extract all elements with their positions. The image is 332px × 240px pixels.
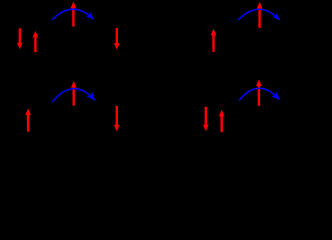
level line: top-right quadrant, left site (199, 53, 228, 55)
level line: bottom-right quadrant, left site (198, 132, 230, 134)
spin-down arrow, bottom-right pair (203, 107, 209, 131)
spin-up arrow, top-left pair (33, 31, 39, 52)
level line: top-left quadrant, right site (103, 53, 131, 55)
blue hopping arrow, bottom-left quadrant (52, 89, 95, 103)
spin-down arrow, top-left right site (114, 28, 120, 50)
level line: top-right quadrant, right site (289, 53, 317, 55)
blue hopping arrow, bottom-right quadrant (239, 88, 279, 100)
level line: bottom-left quadrant, left site (14, 132, 43, 134)
blue hopping arrow, top-right quadrant (238, 9, 279, 20)
level line: top-right quadrant, center site (245, 28, 274, 30)
spin-down arrow, top-left pair (17, 28, 23, 49)
level line: bottom-left quadrant, center site (59, 106, 88, 108)
spin-up arrow, top-left center site (71, 2, 77, 27)
spin-up arrow, bottom-left center site (71, 81, 77, 106)
level line: bottom-right quadrant, center site (245, 106, 274, 108)
level line: bottom-right quadrant, right site (289, 132, 317, 134)
spin-up arrow, top-right left site (211, 29, 217, 52)
level line: bottom-left quadrant, right site (103, 132, 131, 134)
spin-up arrow, top-right center site (257, 2, 263, 28)
blue hopping arrow, top-left quadrant (52, 9, 93, 20)
level line: top-left quadrant, left site (black, invisible on black) (12, 53, 44, 55)
spin-up arrow, bottom-right pair (219, 110, 225, 132)
spin-up arrow, bottom-right center site (256, 79, 262, 105)
spin-down arrow, bottom-left right site (114, 106, 120, 132)
spin-up arrow, bottom-left left site (25, 108, 31, 131)
level line: top-left quadrant, center site (59, 28, 88, 30)
